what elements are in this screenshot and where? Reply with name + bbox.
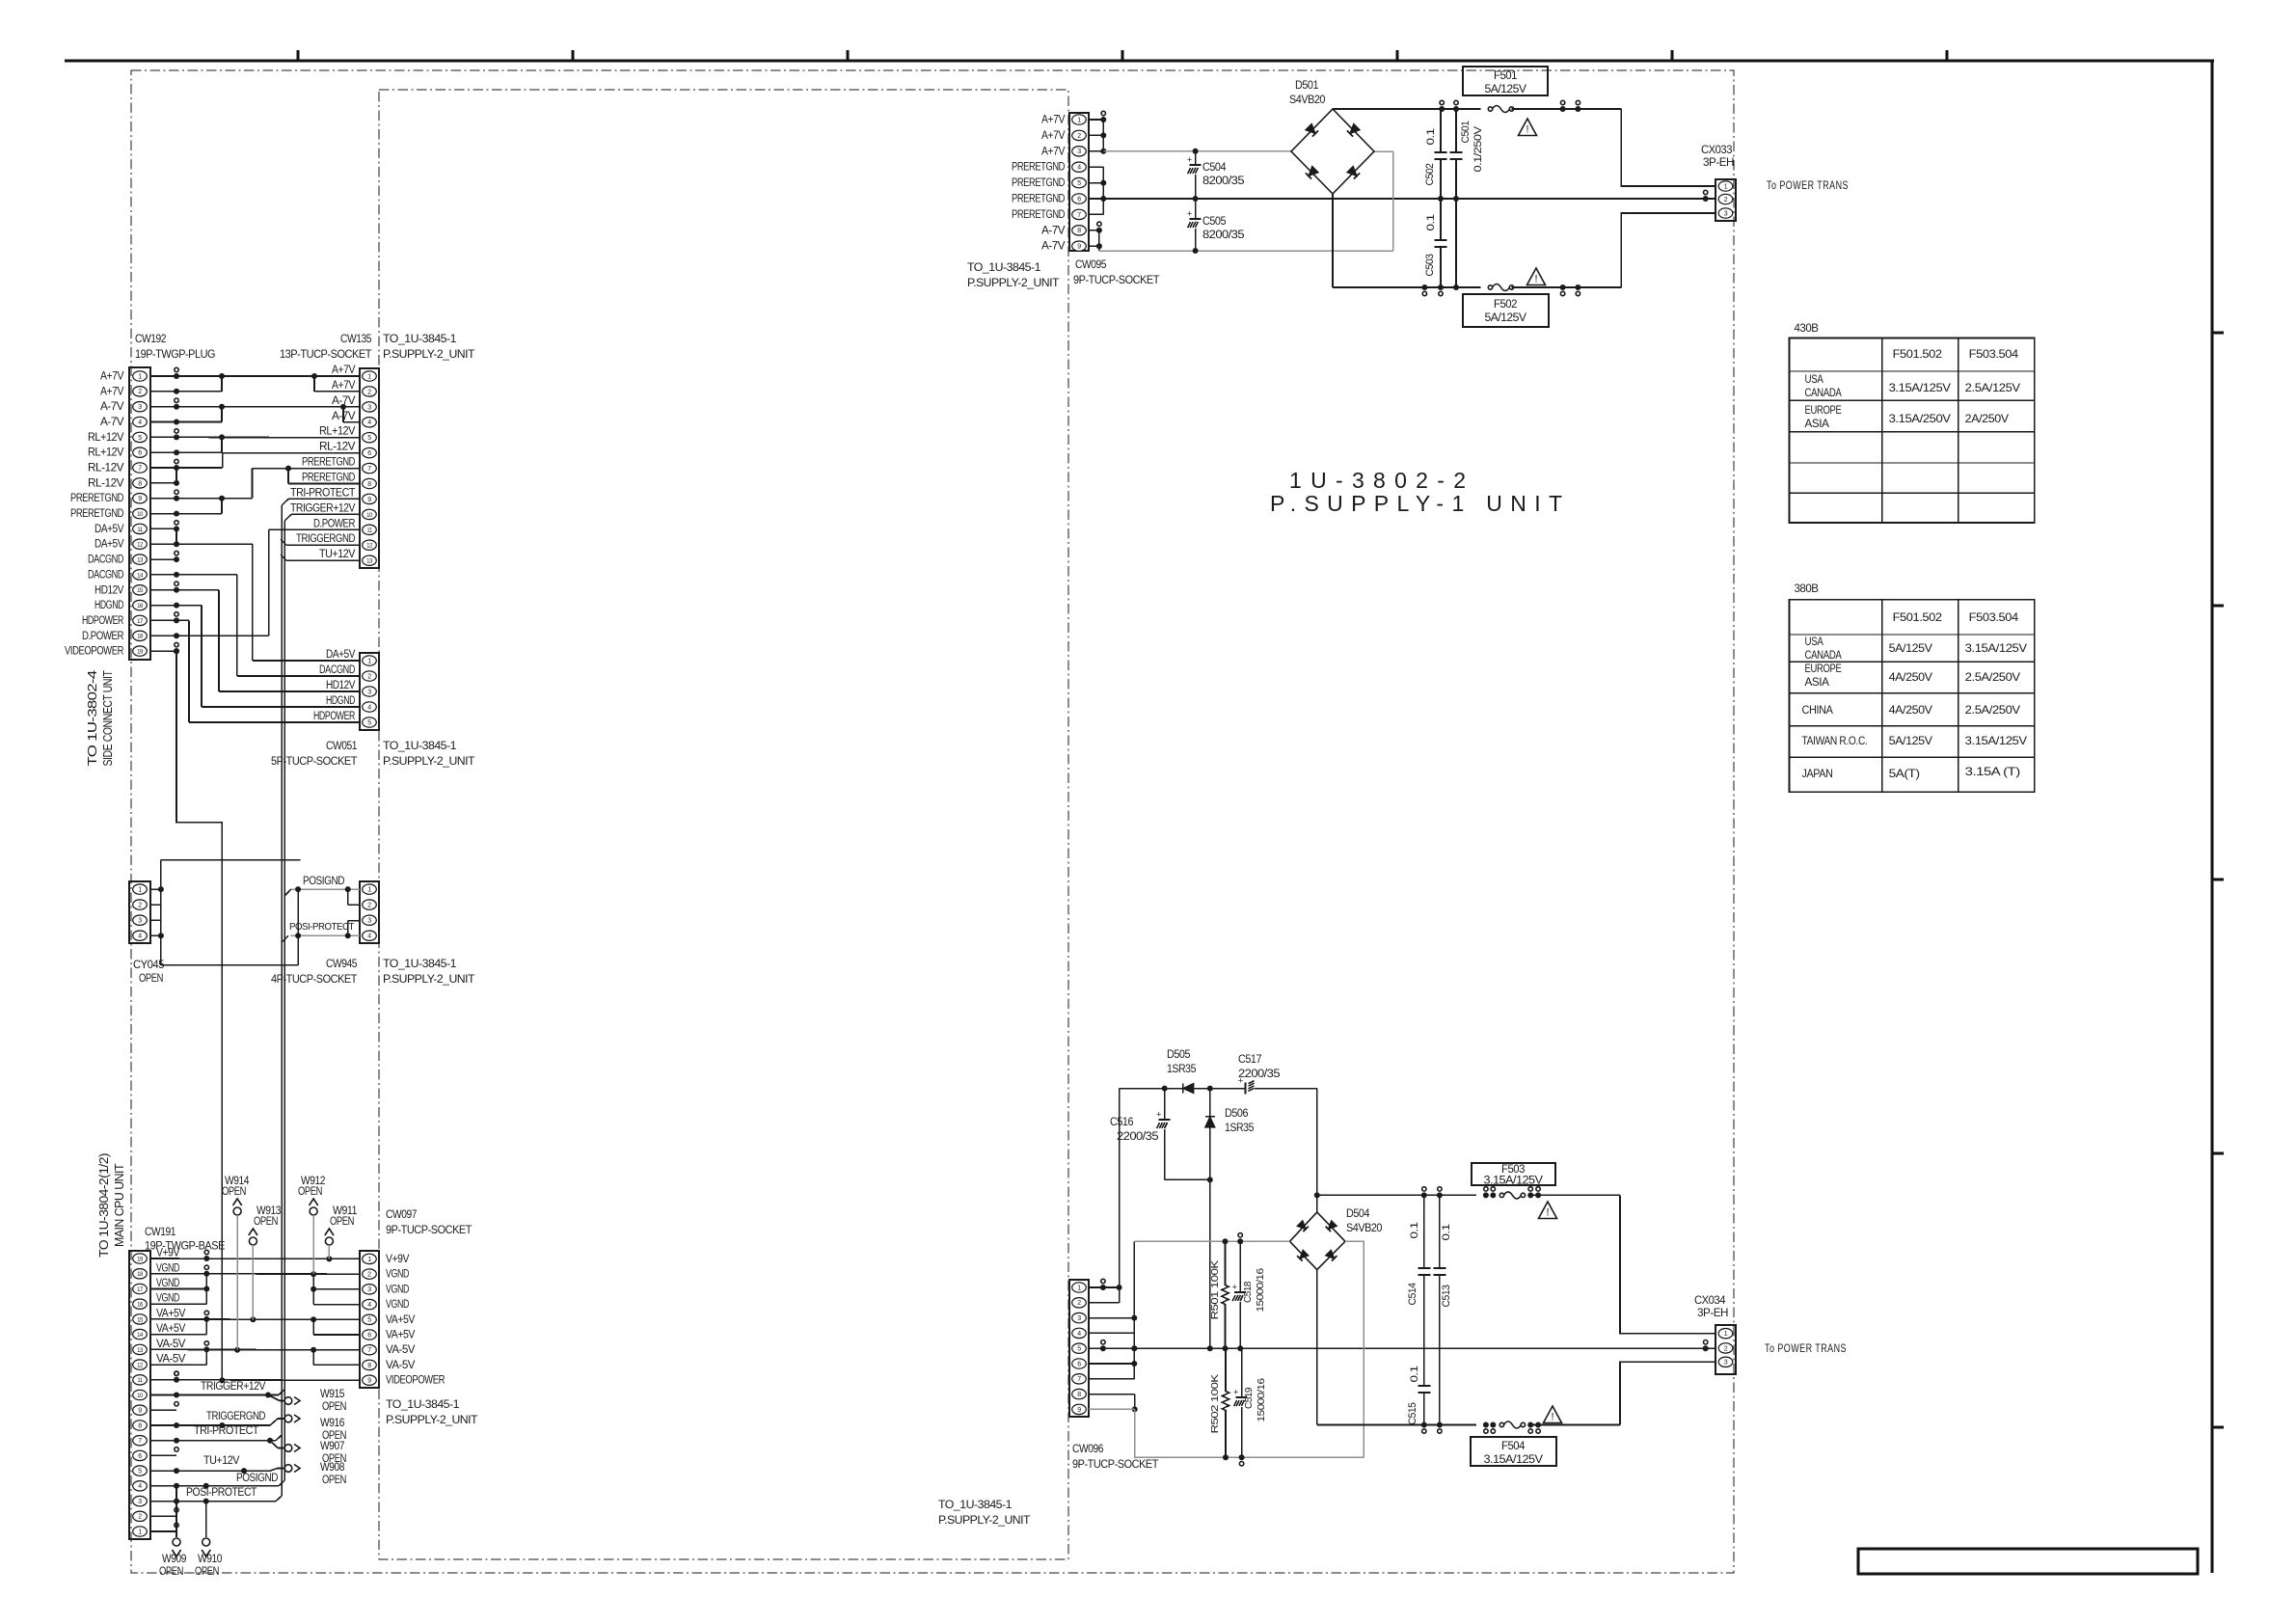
svg-text:P.SUPPLY-2_UNIT: P.SUPPLY-2_UNIT xyxy=(383,972,475,986)
svg-text:3.15A/125V: 3.15A/125V xyxy=(1889,381,1951,394)
svg-text:TAIWAN R.O.C.: TAIWAN R.O.C. xyxy=(1802,734,1868,747)
svg-text:5: 5 xyxy=(367,1317,371,1324)
warning triangle F504 xyxy=(1544,1406,1562,1423)
svg-text:W915: W915 xyxy=(320,1387,345,1400)
svg-text:TRI-PROTECT: TRI-PROTECT xyxy=(194,1425,258,1437)
svg-text:W910: W910 xyxy=(198,1552,223,1565)
outer unit boundary dash-dot box xyxy=(131,70,1734,1573)
svg-text:9: 9 xyxy=(367,497,371,503)
connector CW192 19P-TWGP-PLUG xyxy=(129,367,150,660)
svg-text:RL+12V: RL+12V xyxy=(88,432,124,444)
svg-text:8: 8 xyxy=(1077,1392,1081,1398)
svg-text:P.SUPPLY-2_UNIT: P.SUPPLY-2_UNIT xyxy=(383,754,475,768)
svg-text:5: 5 xyxy=(1077,180,1081,187)
svg-text:0.1: 0.1 xyxy=(1425,128,1437,145)
connector CX034 3P-EH xyxy=(1715,1325,1736,1374)
svg-text:5: 5 xyxy=(138,435,142,442)
svg-text:TRIGGER+12V: TRIGGER+12V xyxy=(290,502,356,514)
capacitor C505 8200/35 xyxy=(1195,199,1197,219)
svg-text:4A/250V: 4A/250V xyxy=(1889,703,1932,717)
connector CW095 9P-TUCP-SOCKET xyxy=(1069,113,1089,251)
wire A-7V net rows 3-4 xyxy=(176,406,360,408)
gray wire AC in from pins3-7 to bridge left xyxy=(1134,1240,1289,1242)
svg-text:RL+12V: RL+12V xyxy=(88,447,124,459)
CW192 pin stubs xyxy=(150,375,176,377)
svg-text:P.SUPPLY-1 UNIT: P.SUPPLY-1 UNIT xyxy=(1270,491,1562,516)
svg-text:2: 2 xyxy=(1724,1345,1728,1352)
svg-text:PRERETGND: PRERETGND xyxy=(1012,162,1065,174)
svg-text:1: 1 xyxy=(1724,183,1728,190)
resistor R502 100K xyxy=(1225,1348,1227,1392)
svg-text:7: 7 xyxy=(1077,212,1081,219)
connector CW051 5P-TUCP-SOCKET xyxy=(360,653,379,730)
capacitor C515 0.1 xyxy=(1423,1348,1425,1386)
svg-text:D505: D505 xyxy=(1167,1049,1190,1061)
diode D506 1SR35 xyxy=(1209,1089,1211,1349)
fuse F504 3.15A/125V xyxy=(1499,1422,1503,1426)
svg-text:6: 6 xyxy=(138,1453,142,1460)
svg-text:0.1: 0.1 xyxy=(1441,1224,1452,1240)
svg-text:5: 5 xyxy=(1077,1346,1081,1353)
svg-text:5: 5 xyxy=(367,435,371,442)
svg-text:9P-TUCP-SOCKET: 9P-TUCP-SOCKET xyxy=(1072,1457,1159,1471)
svg-text:PRERETGND: PRERETGND xyxy=(70,493,123,504)
svg-text:C516: C516 xyxy=(1110,1117,1133,1128)
svg-text:C517: C517 xyxy=(1238,1054,1261,1066)
diode D505 1SR35 xyxy=(1183,1084,1194,1094)
svg-text:CW192: CW192 xyxy=(135,332,167,345)
svg-text:ASIA: ASIA xyxy=(1805,675,1829,689)
svg-text:3.15A/125V: 3.15A/125V xyxy=(1965,641,2027,655)
bridge rectifier D504 S4VB20 xyxy=(1290,1212,1346,1270)
svg-text:OPEN: OPEN xyxy=(222,1184,246,1198)
inner P.SUPPLY-2 boundary dash-dot box xyxy=(379,90,1068,1559)
svg-text:+: + xyxy=(1232,1283,1237,1292)
bottom rail (-) with fuse F502 xyxy=(1333,286,1481,288)
svg-text:9P-TUCP-SOCKET: 9P-TUCP-SOCKET xyxy=(1073,273,1160,286)
svg-text:VA-5V: VA-5V xyxy=(156,1354,186,1366)
svg-text:DACGND: DACGND xyxy=(88,569,123,581)
svg-text:!: ! xyxy=(1534,274,1537,285)
svg-text:POSI-PROTECT: POSI-PROTECT xyxy=(289,921,355,933)
svg-text:3P-EH: 3P-EH xyxy=(1703,155,1734,169)
connector CW191 19P-TWGP-BASE xyxy=(129,1251,150,1539)
svg-text:CX034: CX034 xyxy=(1694,1293,1726,1307)
svg-text:7: 7 xyxy=(1077,1376,1081,1383)
svg-text:CW095: CW095 xyxy=(1075,257,1107,271)
svg-text:A+7V: A+7V xyxy=(100,371,124,383)
svg-text:TO 1U-3804-2(1/2): TO 1U-3804-2(1/2) xyxy=(97,1153,111,1258)
svg-text:VGND: VGND xyxy=(386,1284,409,1295)
svg-text:C518: C518 xyxy=(1242,1281,1254,1303)
svg-text:VGND: VGND xyxy=(386,1269,409,1281)
CW095 pins 8-9 stubs and join xyxy=(1089,230,1099,231)
svg-text:EUROPE: EUROPE xyxy=(1805,403,1842,417)
svg-text:2.5A/250V: 2.5A/250V xyxy=(1965,670,2020,684)
connector CY045 OPEN 4P xyxy=(129,881,150,943)
svg-text:19P-TWGP-PLUG: 19P-TWGP-PLUG xyxy=(135,347,215,361)
svg-text:13P-TUCP-SOCKET: 13P-TUCP-SOCKET xyxy=(280,347,372,361)
svg-text:TO_1U-3845-1: TO_1U-3845-1 xyxy=(386,1397,460,1411)
svg-text:D506: D506 xyxy=(1225,1108,1248,1120)
svg-text:0.1/250V: 0.1/250V xyxy=(1472,125,1484,172)
svg-text:A+7V: A+7V xyxy=(1041,130,1066,142)
svg-text:P.SUPPLY-2_UNIT: P.SUPPLY-2_UNIT xyxy=(938,1513,1031,1527)
svg-text:2: 2 xyxy=(138,389,142,395)
wire RL-12V net rows 7-8 xyxy=(176,467,223,469)
svg-text:RL-12V: RL-12V xyxy=(88,477,124,489)
revision box bottom right xyxy=(1858,1549,2198,1574)
svg-text:VIDEOPOWER: VIDEOPOWER xyxy=(386,1375,445,1387)
svg-text:+: + xyxy=(1156,1110,1161,1120)
wire A+7V to bridge (AC1) xyxy=(1103,150,1291,152)
jumper W907 OPEN xyxy=(284,1445,292,1452)
svg-text:C505: C505 xyxy=(1202,216,1226,228)
svg-text:1: 1 xyxy=(138,887,142,894)
svg-text:C519: C519 xyxy=(1243,1387,1255,1409)
svg-text:USA: USA xyxy=(1805,372,1823,386)
svg-text:15000/16: 15000/16 xyxy=(1255,1268,1266,1313)
svg-text:4: 4 xyxy=(367,934,371,940)
svg-text:!: ! xyxy=(1546,1207,1549,1219)
svg-text:CY045: CY045 xyxy=(133,958,165,971)
svg-text:F501.502: F501.502 xyxy=(1893,610,1943,624)
svg-text:TRIGGERGND: TRIGGERGND xyxy=(296,533,355,545)
svg-text:C514: C514 xyxy=(1407,1283,1418,1305)
svg-text:5A/125V: 5A/125V xyxy=(1889,734,1932,747)
svg-text:2: 2 xyxy=(138,903,142,909)
svg-text:VA+5V: VA+5V xyxy=(156,1323,186,1335)
svg-text:6: 6 xyxy=(138,450,142,457)
staircase wires CW192 pins 12-17 to CW051 xyxy=(176,543,253,545)
jumper W915 OPEN xyxy=(284,1397,292,1405)
CW096 pin1-2 stubs xyxy=(1089,1286,1120,1288)
svg-text:1: 1 xyxy=(367,658,371,664)
jumper W916 OPEN xyxy=(284,1415,292,1422)
svg-text:3: 3 xyxy=(138,404,142,411)
bottom rail F504 xyxy=(1317,1424,1476,1426)
page frame right border xyxy=(2211,61,2214,1573)
svg-text:V+9V: V+9V xyxy=(156,1248,180,1259)
svg-text:CHINA: CHINA xyxy=(1802,703,1833,717)
svg-text:CW135: CW135 xyxy=(340,332,372,345)
svg-text:4P-TUCP-SOCKET: 4P-TUCP-SOCKET xyxy=(271,972,358,986)
svg-text:CANADA: CANADA xyxy=(1805,648,1842,662)
svg-text:D501: D501 xyxy=(1295,80,1318,92)
svg-text:A-7V: A-7V xyxy=(1041,241,1066,253)
svg-text:TO_1U-3845-1: TO_1U-3845-1 xyxy=(938,1498,1013,1511)
svg-text:2: 2 xyxy=(1077,133,1081,140)
svg-text:HDPOWER: HDPOWER xyxy=(82,615,123,627)
svg-text:3: 3 xyxy=(367,404,371,411)
svg-text:OPEN: OPEN xyxy=(159,1564,183,1578)
svg-text:3: 3 xyxy=(1077,149,1081,155)
svg-text:5P-TUCP-SOCKET: 5P-TUCP-SOCKET xyxy=(271,754,358,768)
svg-text:1: 1 xyxy=(1724,1331,1728,1338)
resistor R501 100K xyxy=(1225,1241,1227,1286)
connector CW945 4P-TUCP-SOCKET xyxy=(360,881,379,943)
svg-text:6: 6 xyxy=(367,450,371,457)
svg-text:F501: F501 xyxy=(1494,70,1517,82)
capacitor C502 0.1 xyxy=(1440,109,1442,152)
PRERETGND mid rail xyxy=(1103,198,1715,200)
svg-text:P.SUPPLY-2_UNIT: P.SUPPLY-2_UNIT xyxy=(967,276,1060,289)
wire VIDEOPOWER row xyxy=(150,1379,360,1381)
svg-text:8: 8 xyxy=(138,480,142,487)
svg-text:A-7V: A-7V xyxy=(100,417,124,428)
svg-text:1: 1 xyxy=(1077,117,1081,123)
svg-text:PRERETGND: PRERETGND xyxy=(302,473,355,484)
svg-text:3: 3 xyxy=(138,1499,142,1505)
svg-text:W909: W909 xyxy=(162,1552,187,1565)
svg-text:RL+12V: RL+12V xyxy=(319,426,356,438)
svg-text:PRERETGND: PRERETGND xyxy=(1012,209,1065,221)
svg-text:3.15A (T): 3.15A (T) xyxy=(1965,765,2020,778)
svg-text:7: 7 xyxy=(138,465,142,472)
svg-text:2200/35: 2200/35 xyxy=(1117,1131,1158,1143)
svg-text:S4VB20: S4VB20 xyxy=(1289,95,1325,106)
wire bridge bottom to F504 rail xyxy=(1316,1270,1318,1425)
fuse F503 3.15A/125V xyxy=(1499,1193,1503,1197)
svg-text:D.POWER: D.POWER xyxy=(82,631,123,642)
svg-text:7: 7 xyxy=(138,1438,142,1445)
svg-text:TO_1U-3845-1: TO_1U-3845-1 xyxy=(383,957,457,970)
svg-text:VA+5V: VA+5V xyxy=(156,1308,186,1319)
wire VGND rows xyxy=(150,1273,360,1275)
vertical bus TRI-PROTECT down page xyxy=(281,505,283,1496)
svg-text:JAPAN: JAPAN xyxy=(1802,767,1833,780)
svg-text:POSI-PROTECT: POSI-PROTECT xyxy=(186,1487,257,1499)
svg-text:0.1: 0.1 xyxy=(1409,1366,1420,1382)
wire A-7V to bridge (AC2) xyxy=(1099,250,1393,252)
svg-text:PRERETGND: PRERETGND xyxy=(1012,194,1065,205)
svg-text:P.SUPPLY-2_UNIT: P.SUPPLY-2_UNIT xyxy=(383,347,475,361)
svg-text:+: + xyxy=(1187,209,1192,219)
svg-text:A+7V: A+7V xyxy=(1041,146,1066,157)
svg-text:VA-5V: VA-5V xyxy=(386,1344,416,1356)
svg-text:0.1: 0.1 xyxy=(1409,1222,1420,1238)
svg-text:TRIGGERGND: TRIGGERGND xyxy=(206,1411,265,1422)
svg-text:2A/250V: 2A/250V xyxy=(1965,412,2009,425)
svg-text:DA+5V: DA+5V xyxy=(95,539,124,551)
svg-text:F503: F503 xyxy=(1501,1164,1525,1176)
svg-text:OPEN: OPEN xyxy=(322,1399,346,1413)
wire TRI-PROTECT flag from CW135 pin9 xyxy=(288,498,360,500)
wire bridge DC- down to bottom rail xyxy=(1332,194,1334,287)
svg-text:5A(T): 5A(T) xyxy=(1889,767,1920,780)
svg-text:8200/35: 8200/35 xyxy=(1202,230,1244,241)
svg-text:3P-EH: 3P-EH xyxy=(1697,1306,1728,1319)
svg-text:DACGND: DACGND xyxy=(88,555,123,566)
svg-text:OPEN: OPEN xyxy=(322,1473,346,1486)
svg-text:5: 5 xyxy=(138,1469,142,1475)
svg-text:8: 8 xyxy=(138,1422,142,1429)
svg-text:C515: C515 xyxy=(1407,1402,1418,1424)
svg-text:6: 6 xyxy=(367,1332,371,1339)
bottom rail after fuse to CX033 pin3 xyxy=(1512,286,1622,288)
mid rail doublet near CX033 xyxy=(1703,196,1709,202)
svg-text:9: 9 xyxy=(367,1378,371,1385)
stub pins 11,9,6,2,1 open xyxy=(150,1379,176,1381)
svg-text:PRERETGND: PRERETGND xyxy=(1012,177,1065,189)
svg-text:VA+5V: VA+5V xyxy=(386,1314,416,1326)
capacitor C514 0.1 xyxy=(1423,1195,1425,1268)
svg-text:HD12V: HD12V xyxy=(95,584,124,596)
svg-text:1SR35: 1SR35 xyxy=(1225,1123,1254,1134)
svg-text:0.1: 0.1 xyxy=(1425,214,1437,230)
svg-text:DA+5V: DA+5V xyxy=(95,524,124,535)
svg-text:EUROPE: EUROPE xyxy=(1805,662,1842,675)
svg-text:4: 4 xyxy=(138,420,142,426)
svg-text:3: 3 xyxy=(367,1286,371,1293)
svg-text:CW097: CW097 xyxy=(386,1207,418,1221)
vertical bus TRIGGER+12V down page xyxy=(284,521,285,1480)
svg-text:To POWER TRANS: To POWER TRANS xyxy=(1767,180,1849,192)
svg-text:SIDE CONNECT UNIT: SIDE CONNECT UNIT xyxy=(101,670,115,767)
svg-text:C504: C504 xyxy=(1202,162,1227,174)
svg-text:DA+5V: DA+5V xyxy=(326,649,356,661)
svg-text:DACGND: DACGND xyxy=(319,664,355,676)
svg-text:15000/16: 15000/16 xyxy=(1256,1378,1267,1422)
svg-text:430B: 430B xyxy=(1795,321,1819,335)
svg-text:3.15A/125V: 3.15A/125V xyxy=(1484,1176,1544,1187)
svg-text:1: 1 xyxy=(1077,1285,1081,1291)
svg-text:A+7V: A+7V xyxy=(100,386,124,397)
wire PRERETGND net rows 9-10 xyxy=(176,498,253,500)
svg-text:HDPOWER: HDPOWER xyxy=(313,711,355,722)
svg-text:7: 7 xyxy=(367,1347,371,1354)
vertical pins3-7 join xyxy=(1133,1241,1135,1379)
svg-text:4: 4 xyxy=(1077,165,1081,172)
svg-text:P.SUPPLY-2_UNIT: P.SUPPLY-2_UNIT xyxy=(386,1413,478,1426)
svg-text:3: 3 xyxy=(138,918,142,925)
capacitor C516 2200/35 xyxy=(1164,1089,1166,1120)
svg-text:W916: W916 xyxy=(320,1416,345,1429)
svg-text:8200/35: 8200/35 xyxy=(1202,176,1244,187)
svg-text:2: 2 xyxy=(1724,197,1728,203)
svg-text:VA-5V: VA-5V xyxy=(386,1360,416,1371)
svg-text:2: 2 xyxy=(367,1272,371,1279)
svg-text:F503.504: F503.504 xyxy=(1969,610,2019,624)
svg-text:3.15A/125V: 3.15A/125V xyxy=(1965,734,2027,747)
svg-text:PRERETGND: PRERETGND xyxy=(302,457,355,469)
jumper W908 OPEN xyxy=(284,1465,292,1473)
wire VA-5V rows xyxy=(150,1348,360,1350)
page frame top border xyxy=(65,60,2214,63)
routing box around CY045 xyxy=(161,859,301,861)
svg-text:3: 3 xyxy=(367,689,371,695)
svg-text:4A/250V: 4A/250V xyxy=(1889,670,1932,684)
jumper W909 OPEN below xyxy=(176,1486,177,1537)
fuse F501 5A/125V xyxy=(1488,107,1492,111)
svg-text:W907: W907 xyxy=(320,1439,345,1452)
capacitor C501 0.1/250V xyxy=(1455,109,1457,152)
svg-text:7: 7 xyxy=(367,466,371,473)
svg-text:HDGND: HDGND xyxy=(326,695,355,707)
svg-text:6: 6 xyxy=(1077,1361,1081,1367)
svg-text:1: 1 xyxy=(138,1529,142,1535)
svg-text:F504: F504 xyxy=(1501,1441,1526,1452)
wire VA+5V rows xyxy=(150,1318,360,1320)
svg-text:3.15A/250V: 3.15A/250V xyxy=(1889,412,1951,425)
svg-text:C513: C513 xyxy=(1441,1285,1452,1307)
wire RL+12V net rows 5-6 xyxy=(176,436,360,438)
svg-text:A+7V: A+7V xyxy=(332,365,356,376)
svg-text:5: 5 xyxy=(367,719,371,726)
svg-text:2: 2 xyxy=(367,389,371,395)
svg-text:To POWER TRANS: To POWER TRANS xyxy=(1765,1343,1847,1355)
capacitor C513 0.1 xyxy=(1439,1195,1441,1268)
svg-text:1: 1 xyxy=(367,1257,371,1263)
wire VIDEOPOWER bus from CW192 pin19 xyxy=(176,651,222,1380)
svg-text:OPEN: OPEN xyxy=(298,1184,322,1198)
svg-text:4: 4 xyxy=(367,420,371,426)
warning triangle top xyxy=(1519,119,1537,136)
svg-text:1SR35: 1SR35 xyxy=(1167,1064,1196,1075)
top rail after fuse to CX033 pin1 xyxy=(1512,108,1622,110)
svg-text:ASIA: ASIA xyxy=(1805,417,1829,430)
svg-text:TO_1U-3845-1: TO_1U-3845-1 xyxy=(383,332,457,345)
svg-text:HDGND: HDGND xyxy=(95,600,123,611)
svg-text:!: ! xyxy=(1551,1412,1553,1423)
svg-text:F502: F502 xyxy=(1494,299,1517,311)
svg-text:8: 8 xyxy=(367,1363,371,1369)
svg-text:D504: D504 xyxy=(1346,1208,1370,1220)
svg-text:A+7V: A+7V xyxy=(332,380,356,392)
wire TU+12V flag from CW135 pin13 xyxy=(286,559,360,561)
svg-text:2: 2 xyxy=(138,1514,142,1521)
svg-text:4: 4 xyxy=(138,1483,142,1490)
svg-text:VGND: VGND xyxy=(156,1278,179,1289)
capacitor C519 15000/16 xyxy=(1241,1348,1243,1397)
CW095 pins 4-7 stubs and join xyxy=(1089,166,1103,168)
svg-text:CW051: CW051 xyxy=(326,739,358,752)
svg-text:F503.504: F503.504 xyxy=(1969,347,2019,361)
link C516 to D506 bottom xyxy=(1165,1178,1210,1180)
svg-text:2.5A/125V: 2.5A/125V xyxy=(1965,381,2020,394)
svg-text:3: 3 xyxy=(1724,210,1728,217)
wire V+9V row xyxy=(150,1258,360,1259)
top edge tick marks xyxy=(297,50,300,61)
svg-text:VIDEOPOWER: VIDEOPOWER xyxy=(65,646,123,658)
svg-text:TU+12V: TU+12V xyxy=(319,549,356,560)
capacitor C518 15000/16 xyxy=(1239,1241,1241,1292)
svg-text:OPEN: OPEN xyxy=(139,971,163,985)
svg-text:POSIGND: POSIGND xyxy=(303,876,344,887)
svg-text:4: 4 xyxy=(367,1302,371,1309)
svg-text:2: 2 xyxy=(367,903,371,909)
svg-text:5A/125V: 5A/125V xyxy=(1485,84,1527,95)
svg-text:2.5A/250V: 2.5A/250V xyxy=(1965,703,2020,717)
mid rail pin5 to CX034 pin2 xyxy=(1089,1347,1715,1349)
CY045 pin stubs xyxy=(150,888,161,890)
connector CX033 3P-EH xyxy=(1715,179,1736,221)
svg-text:CW191: CW191 xyxy=(145,1225,176,1238)
gray wire bridge right corner down xyxy=(1345,1241,1364,1457)
svg-text:POSIGND: POSIGND xyxy=(236,1473,278,1484)
svg-text:8: 8 xyxy=(1077,228,1081,234)
svg-text:TRI-PROTECT: TRI-PROTECT xyxy=(290,487,355,499)
svg-text:9: 9 xyxy=(138,1408,142,1415)
svg-text:2: 2 xyxy=(1077,1300,1081,1307)
svg-text:R502 100K: R502 100K xyxy=(1209,1374,1221,1434)
svg-text:A-7V: A-7V xyxy=(100,401,124,413)
svg-text:3: 3 xyxy=(1724,1360,1728,1367)
svg-text:A+7V: A+7V xyxy=(1041,115,1066,126)
svg-text:9: 9 xyxy=(1077,244,1081,251)
top rail of output to fuse F503 xyxy=(1317,1194,1476,1196)
svg-text:TU+12V: TU+12V xyxy=(203,1455,240,1467)
